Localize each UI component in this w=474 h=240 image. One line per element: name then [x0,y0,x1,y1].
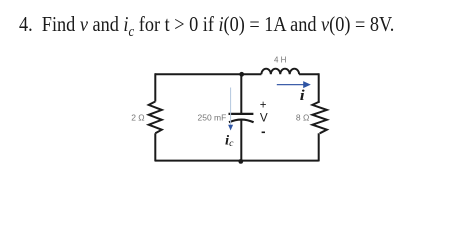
svg-text:+: + [260,100,267,112]
wire junction-to-inductor [242,73,262,75]
current arrow ic (capacitor) [228,88,233,131]
svg-text:i: i [300,88,305,103]
wire bottom right segment [241,160,319,162]
svg-text:250 mF: 250 mF [198,113,227,123]
wire right vertical bottom [318,133,320,161]
inductor L1 4H [261,69,299,75]
capacitor C1 bottom plate (curved) [229,120,254,123]
label - (capacitor polarity) [262,131,265,133]
svg-text:2 Ω: 2 Ω [131,113,144,123]
resistor R2 8ohm [312,102,327,134]
label ic [225,133,234,149]
node bottom junction [238,159,243,164]
svg-text:8 Ω: 8 Ω [296,113,309,123]
svg-text:V: V [260,112,268,125]
wire inductor-to-top-right [299,73,319,75]
label i [300,88,305,103]
resistor R1 2ohm [149,102,162,134]
node top junction [239,72,244,77]
wire left vertical top [154,73,156,101]
wire middle vertical top [240,74,242,114]
svg-text:4 H: 4 H [274,55,287,64]
svg-text:ic: ic [225,133,234,149]
wire left vertical bottom [154,133,156,161]
wire top-left segment [155,73,242,75]
problem statement text [19,12,394,41]
wire right vertical top [318,73,320,101]
current arrow i (inductor) [277,81,311,88]
capacitor C1 top plate [229,113,254,115]
wire middle vertical bottom [240,121,242,162]
wire bottom left segment [155,160,241,162]
